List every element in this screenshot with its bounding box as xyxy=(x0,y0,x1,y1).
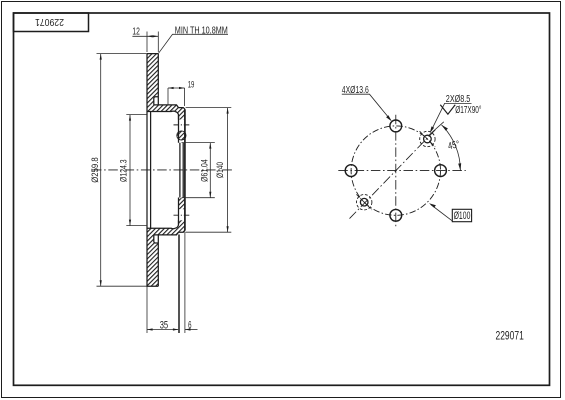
arrow arc top xyxy=(442,125,448,131)
arrow Ø140 top xyxy=(227,108,229,114)
section centerline xyxy=(92,169,233,171)
vertical centerline xyxy=(395,115,397,229)
wall bottom edge / chamfer xyxy=(179,231,185,233)
arrow Ø124.3 top xyxy=(129,115,131,121)
dim Ø61.04 extension lines xyxy=(182,143,215,198)
arrow arc bottom xyxy=(458,163,461,170)
bolt hole centerline lower xyxy=(174,214,191,216)
svg-text:229071: 229071 xyxy=(35,16,64,28)
friction ring upper (hatched) xyxy=(147,54,158,105)
arrow 35 left xyxy=(147,328,153,330)
arrow 19 left xyxy=(168,87,174,89)
bolt hole E xyxy=(435,165,447,177)
arrow 6 right xyxy=(185,328,191,330)
hat cylinder upper bar + wall block (hatched) xyxy=(147,105,185,120)
dim 35 line xyxy=(147,329,179,331)
leader Ø100 xyxy=(431,205,453,221)
bolt hole W xyxy=(345,165,357,177)
diagonal centerline 45deg xyxy=(350,129,437,219)
svg-text:Ø140: Ø140 xyxy=(215,162,226,178)
svg-text:Ø259.8: Ø259.8 xyxy=(90,157,101,183)
leader MIN TH xyxy=(159,34,229,53)
svg-text:229071: 229071 xyxy=(496,330,524,342)
arrow Ø259.8 top xyxy=(100,54,102,60)
dim 12 extension lines xyxy=(147,32,158,53)
arrow leader 2XØ8.5 xyxy=(430,126,434,133)
dim Ø124.3 line xyxy=(129,115,131,226)
dim 19 extension line xyxy=(168,88,185,106)
svg-text:12: 12 xyxy=(132,27,140,38)
dim Ø124.3 extension lines xyxy=(126,115,147,226)
wall top edge / chamfer xyxy=(179,108,185,110)
arrow Ø259.8 bottom xyxy=(100,280,102,286)
arrow leader Ø100 xyxy=(429,203,436,208)
csk SW cross mark xyxy=(356,194,372,210)
arrow Ø124.3 bottom xyxy=(129,220,131,226)
arrow Ø140 bottom xyxy=(227,226,229,232)
hat bar lower edges xyxy=(147,220,179,235)
svg-text:Ø124.3: Ø124.3 xyxy=(119,159,130,182)
inboard face line xyxy=(150,112,152,229)
bore silhouette lines xyxy=(180,143,183,198)
dim 35/6 extension lines xyxy=(147,232,185,333)
csk hole NE outer dashed xyxy=(420,131,435,146)
arrow 19 right xyxy=(179,87,185,89)
bolt hole centerline upper xyxy=(174,124,191,126)
lower wall hatch band xyxy=(179,198,185,209)
arrow Ø61.04 top xyxy=(209,143,211,149)
wall inner edge segments xyxy=(178,116,180,225)
csk hole SW outer dashed xyxy=(357,195,372,210)
leader 2XØ8.5 xyxy=(431,103,471,130)
dim 12 line xyxy=(132,35,158,37)
wall outer mounting face (bold) xyxy=(184,109,186,230)
bolt circle Ø100 (dash-dot) xyxy=(351,126,440,215)
dim 6 outside line xyxy=(185,329,198,331)
dim 19 line xyxy=(168,87,185,89)
arrow 12 left xyxy=(147,35,153,37)
title box top-left xyxy=(14,13,89,32)
svg-text:35: 35 xyxy=(160,319,168,331)
arrow Ø61.04 bottom xyxy=(209,192,211,198)
dim Ø140 line xyxy=(227,108,229,233)
hat bar upper edges xyxy=(147,105,179,120)
dim Ø61.04 line xyxy=(209,143,211,198)
45deg dimension arc xyxy=(442,125,461,171)
friction ring outline xyxy=(147,54,158,287)
bolt hole N xyxy=(390,120,402,132)
svg-text:6: 6 xyxy=(188,319,191,331)
csk NE cross mark xyxy=(420,131,436,147)
countersink symbol xyxy=(440,105,455,115)
svg-text:19: 19 xyxy=(188,79,195,89)
relief notch lower xyxy=(154,235,159,243)
svg-text:Ø100: Ø100 xyxy=(454,210,471,222)
bolt hole S xyxy=(390,209,402,221)
csk hole SW inner xyxy=(360,198,368,206)
friction ring lower (hatched) xyxy=(147,235,158,286)
horizontal centerline xyxy=(338,170,466,172)
arrow leader 4XØ13.6 xyxy=(386,115,392,121)
dim Ø140 extension lines xyxy=(186,108,232,233)
label box Ø100 xyxy=(452,209,471,221)
countersink blob upper (hatched) xyxy=(177,131,186,140)
dim Ø259.8 extension lines xyxy=(97,54,148,287)
arrow 12 right xyxy=(153,35,159,37)
hat cylinder lower bar + wall block (hatched) xyxy=(147,220,185,235)
leader 4XØ13.6 xyxy=(342,94,391,120)
csk hole NE inner xyxy=(424,135,432,143)
svg-text:Ø17X90°: Ø17X90° xyxy=(455,105,481,116)
dim Ø259.8 line xyxy=(100,54,102,287)
svg-text:45°: 45° xyxy=(447,139,461,152)
45deg reference line xyxy=(429,122,444,136)
svg-text:Ø61.04: Ø61.04 xyxy=(200,159,211,182)
arrow 35 right xyxy=(173,328,179,330)
svg-text:MIN TH 10.8MM: MIN TH 10.8MM xyxy=(175,25,228,36)
relief notch upper xyxy=(154,97,159,105)
